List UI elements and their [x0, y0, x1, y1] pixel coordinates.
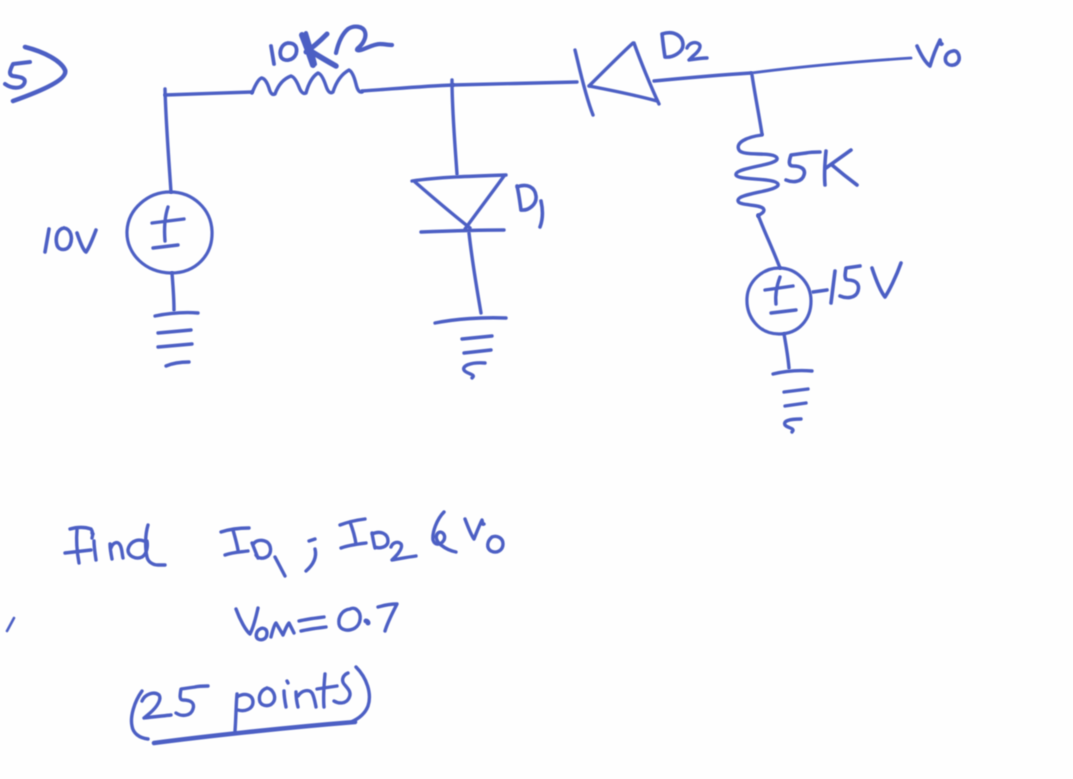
wire: top-left horizontal from V1 branch to resistor R1	[165, 92, 252, 95]
label 10V	[45, 228, 96, 252]
resistor R1	[252, 70, 362, 94]
voltage source V1 (10V)	[127, 192, 212, 273]
annotation: (25 points) with underline	[131, 667, 369, 743]
label Vo	[917, 40, 959, 66]
ground (below V1)	[155, 313, 198, 366]
label -15V	[813, 263, 901, 303]
label D1	[517, 185, 542, 227]
resistor R2 (5K)	[736, 135, 778, 216]
label D2	[662, 33, 707, 60]
wire: source V2 to ground	[784, 334, 789, 368]
diode D1	[412, 175, 506, 232]
label 5K	[786, 150, 857, 185]
label 10KΩ	[271, 27, 392, 66]
annotation: VON = 0.7	[236, 604, 397, 640]
wire: diode D1 to ground	[469, 233, 481, 313]
wire: diode D2 anode to node B	[654, 73, 751, 81]
wire: node B to output Vo	[751, 58, 911, 73]
wire: node A to diode D2 cathode	[453, 82, 577, 85]
annotation: ID1 ; ID2 & Vo	[221, 512, 503, 576]
stray mark	[7, 618, 14, 631]
diode D2	[575, 43, 659, 115]
wire: resistor R1 to node A	[362, 85, 453, 91]
wire: source V1 to ground	[172, 273, 174, 310]
wire: node B down to resistor R2	[752, 75, 762, 134]
annotation: find	[65, 525, 165, 565]
voltage source V2 (-15V)	[747, 268, 811, 334]
ground (below D1)	[435, 318, 506, 378]
wire: resistor R2 to source V2	[758, 215, 780, 268]
wire: top wire down to source V1	[165, 89, 171, 192]
ground (below V2)	[773, 371, 812, 432]
wire: node A down to diode D1	[452, 80, 457, 174]
problem number label "5)"	[5, 47, 65, 101]
